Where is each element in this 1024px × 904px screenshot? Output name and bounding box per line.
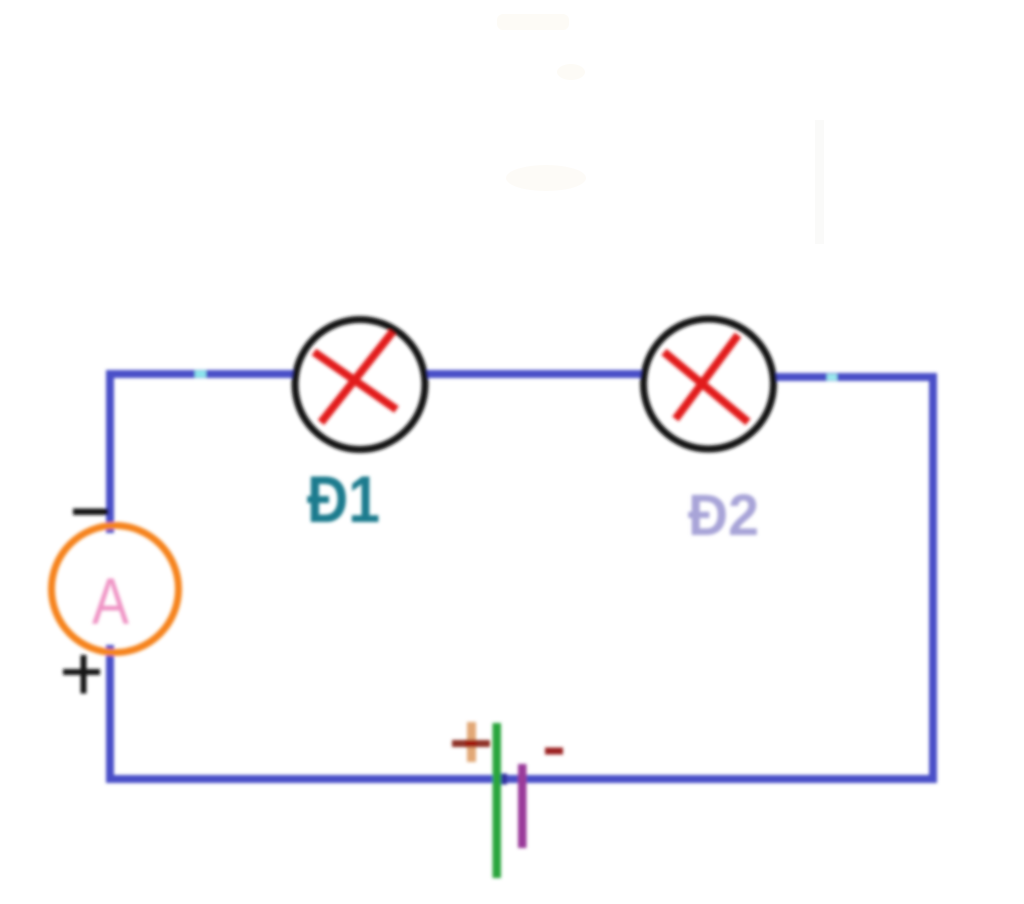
faint vertical band right [815, 120, 824, 244]
minus sign above ammeter [73, 509, 109, 516]
faint erased smudge top [497, 14, 569, 30]
plus sign below ammeter [63, 669, 100, 675]
lamp D1 circle [295, 320, 425, 450]
lamp D2 red X [676, 335, 739, 419]
faint smudge 3 [506, 165, 586, 191]
cyan dash on top-left wire [195, 371, 206, 378]
battery positive plate (green long line) [493, 723, 502, 878]
battery plus label [467, 722, 476, 762]
svg-text:A: A [92, 564, 129, 638]
wire top-left: horizontal from lamp D1 to left corner, down to ammeter [110, 374, 294, 533]
svg-text:Đ1: Đ1 [307, 462, 380, 536]
lamp D1 red X [321, 332, 393, 423]
wire right + bottom + left-lower loop [110, 377, 933, 779]
battery minus label [545, 748, 563, 755]
svg-text:Đ2: Đ2 [688, 483, 759, 548]
ammeter A circle [52, 526, 179, 653]
wire between lamps [426, 370, 643, 378]
battery negative plate (purple short line) [518, 764, 527, 848]
lamp D2 circle [644, 319, 774, 449]
faint smudge 2 [557, 64, 585, 80]
junction dark blue where battery green line crosses bottom wire [494, 774, 507, 785]
cyan dash on top-right wire [827, 374, 837, 381]
